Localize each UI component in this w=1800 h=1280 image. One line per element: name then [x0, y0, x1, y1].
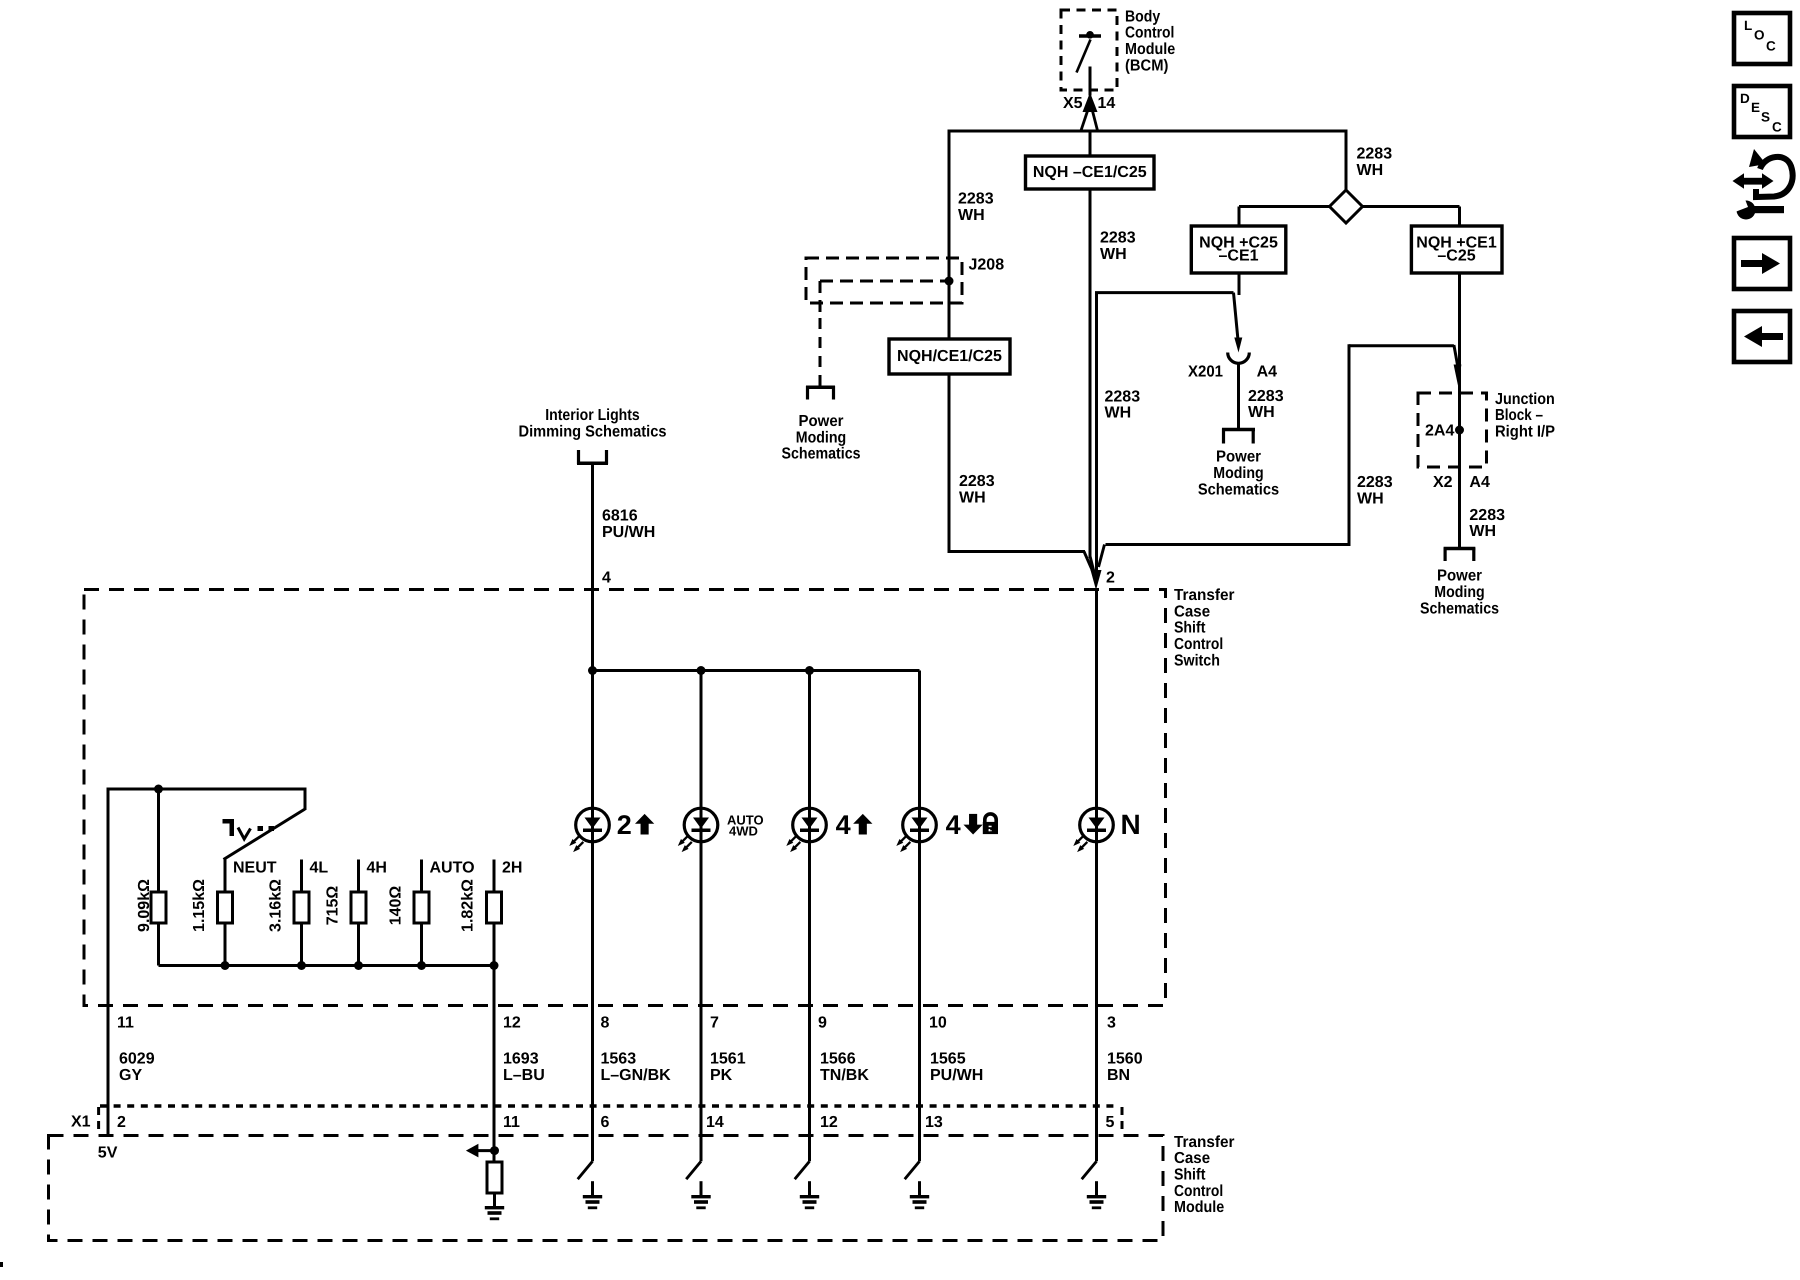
LED indicator 2HI — [576, 808, 610, 842]
resistor 1.82kohm (2H) — [493, 860, 496, 893]
svg-text:S: S — [1761, 109, 1770, 124]
padlock icon — [985, 814, 996, 822]
wire: top bus from BCM pin — [948, 130, 1347, 133]
svg-text:1563: 1563 — [601, 1051, 637, 1068]
svg-text:1566: 1566 — [820, 1051, 856, 1068]
wire: harness segment to module (pin row) — [918, 1006, 921, 1136]
svg-text:13: 13 — [925, 1114, 943, 1131]
svg-text:WH: WH — [1357, 490, 1384, 507]
Body Control Module (BCM) dashed box — [1061, 10, 1117, 90]
LED indicator 4LO lock — [903, 808, 937, 842]
splice J208 outer dashed box — [806, 258, 962, 303]
ground (module pin 5) — [1087, 1195, 1106, 1198]
svg-text:11: 11 — [503, 1114, 520, 1131]
svg-text:Power: Power — [799, 413, 844, 430]
module pin 11: pullup resistor and ground — [493, 1136, 496, 1163]
module pin 13: switch to ground — [918, 1136, 921, 1162]
svg-text:14: 14 — [1098, 95, 1116, 112]
svg-text:Module: Module — [1174, 1199, 1224, 1216]
module pin 5: switch to ground — [1095, 1136, 1098, 1162]
svg-text:4: 4 — [836, 810, 851, 840]
module pin 6: switch to ground — [591, 1136, 594, 1162]
svg-text:4H: 4H — [367, 860, 387, 877]
Junction Block dashed box — [1418, 393, 1487, 467]
svg-text:Right I/P: Right I/P — [1495, 423, 1555, 440]
sidebar icon forward arrow — [1734, 238, 1790, 289]
svg-text:2283: 2283 — [1100, 230, 1136, 247]
resistor bottom bus — [159, 964, 495, 967]
svg-text:WH: WH — [958, 207, 985, 224]
svg-text:X2: X2 — [1433, 474, 1453, 491]
splice diamond — [1330, 190, 1363, 223]
label box NQH +CE1 -C25 — [1411, 226, 1502, 273]
svg-text:(BCM): (BCM) — [1125, 57, 1168, 74]
svg-text:Transfer: Transfer — [1174, 1134, 1235, 1151]
wire: right return branch (horiz-vert-horiz to merge) — [1349, 344, 1454, 347]
wire: harness segment to module (pin row) — [591, 1006, 594, 1136]
ground (module pin 11) — [485, 1206, 504, 1209]
svg-text:Moding: Moding — [796, 429, 846, 446]
svg-text:Control: Control — [1125, 25, 1174, 42]
svg-text:1693: 1693 — [503, 1051, 539, 1068]
svg-text:WH: WH — [1248, 404, 1275, 421]
svg-text:12: 12 — [503, 1015, 521, 1032]
svg-text:4WD: 4WD — [729, 824, 758, 839]
svg-text:O: O — [1754, 27, 1765, 42]
label box NQH/CE1/C25 — [889, 339, 1010, 374]
wire: box down to X201 — [1238, 273, 1241, 295]
BCM pin stub — [1089, 67, 1092, 96]
wire: LED AUTO 4WD branch — [700, 671, 703, 1006]
connector X201 cup — [1228, 353, 1250, 364]
rotary wiper symbol — [223, 819, 234, 824]
svg-text:PK: PK — [710, 1067, 733, 1084]
resistor 3.16kohm (4L) — [300, 860, 303, 893]
svg-text:WH: WH — [1357, 162, 1384, 179]
arrow into BCM pin X5-14 — [1083, 93, 1098, 113]
svg-text:Schematics: Schematics — [1420, 600, 1499, 617]
svg-text:WH: WH — [1100, 246, 1127, 263]
module pin 14: switch to ground — [700, 1136, 703, 1162]
ground (module pin 14) — [691, 1195, 710, 1198]
svg-text:Shift: Shift — [1174, 620, 1206, 637]
svg-text:X1: X1 — [71, 1114, 91, 1131]
svg-text:9: 9 — [818, 1015, 827, 1032]
wire: pair horizontal branch — [1095, 291, 1234, 294]
wire below X201 — [1237, 363, 1240, 428]
svg-text:L–BU: L–BU — [503, 1067, 545, 1084]
svg-text:WH: WH — [1469, 523, 1496, 540]
svg-text:Block –: Block – — [1495, 407, 1543, 424]
merge arrow into switch pin 2 — [1091, 570, 1102, 590]
page corner mark — [0, 1262, 3, 1267]
wire: harness segment to module (pin row) — [808, 1006, 811, 1136]
connector X1 dotted line — [100, 1104, 1120, 1107]
wire: left branch bottom horizontal to merge — [949, 550, 1085, 553]
svg-text:L–GN/BK: L–GN/BK — [601, 1067, 672, 1084]
wire: LED NEUTRAL branch — [1095, 590, 1098, 1006]
off-page bracket (Interior Lights) — [577, 461, 608, 465]
svg-text:1565: 1565 — [930, 1051, 966, 1068]
rotary switch common wire (top) — [108, 788, 305, 791]
svg-text:A4: A4 — [1257, 363, 1278, 380]
wire: LED 2HI branch — [591, 671, 594, 1006]
svg-text:7: 7 — [710, 1015, 719, 1032]
junction dot common/9.09k — [154, 785, 163, 794]
label box NQH +C25 -CE1 — [1191, 226, 1286, 273]
svg-text:Moding: Moding — [1213, 465, 1263, 482]
svg-text:Interior Lights: Interior Lights — [545, 407, 640, 424]
sidebar icon wiring tools — [1730, 149, 1793, 220]
svg-text:Control: Control — [1174, 1183, 1223, 1200]
svg-text:4L: 4L — [310, 860, 329, 877]
svg-text:Schematics: Schematics — [782, 446, 861, 463]
LED indicator AUTO 4WD — [684, 808, 718, 842]
svg-text:1.82kΩ: 1.82kΩ — [459, 879, 476, 932]
svg-text:X201: X201 — [1188, 363, 1223, 380]
svg-text:WH: WH — [959, 490, 986, 507]
svg-text:Switch: Switch — [1174, 652, 1220, 669]
ground (module pin 6) — [583, 1195, 602, 1198]
wire: dimming feed 6816 — [591, 464, 594, 671]
svg-text:8: 8 — [601, 1015, 610, 1032]
svg-text:Junction: Junction — [1495, 391, 1555, 408]
svg-text:2283: 2283 — [1105, 388, 1141, 405]
svg-text:–C25: –C25 — [1437, 248, 1475, 265]
svg-text:WH: WH — [1105, 405, 1132, 422]
wire: common down to pin 11 — [107, 788, 110, 1136]
BCM internal switch blade — [1077, 40, 1091, 73]
off-page bracket (right Power Moding) — [1444, 547, 1476, 551]
off-page connector bracket (Power Moding left) — [806, 386, 835, 390]
resistor 715ohm (4H) — [357, 860, 360, 893]
svg-text:6029: 6029 — [119, 1051, 155, 1068]
svg-text:C: C — [1766, 38, 1776, 53]
svg-text:L: L — [1744, 18, 1752, 33]
junction dots on LED bus — [588, 666, 597, 675]
svg-text:Case: Case — [1174, 1150, 1210, 1167]
sidebar icon DESC — [1734, 86, 1790, 137]
junction dot at J208 — [945, 277, 954, 286]
svg-text:1.15kΩ: 1.15kΩ — [191, 879, 208, 932]
resistor 140ohm (AUTO) — [420, 860, 423, 893]
svg-text:715Ω: 715Ω — [324, 886, 341, 926]
svg-text:PU/WH: PU/WH — [602, 524, 655, 541]
svg-text:9.09kΩ: 9.09kΩ — [136, 879, 153, 932]
splice J208 inner dashed box — [820, 280, 955, 283]
connector X1 side ticks — [97, 1107, 100, 1133]
wire: 2H junction down to pin 12 — [493, 964, 496, 1151]
svg-text:3: 3 — [1107, 1015, 1116, 1032]
svg-text:Transfer: Transfer — [1174, 587, 1235, 604]
svg-text:4: 4 — [946, 810, 961, 840]
svg-text:5V: 5V — [98, 1144, 118, 1161]
svg-text:Moding: Moding — [1434, 584, 1484, 601]
LED indicator 4HI — [793, 808, 827, 842]
svg-text:Case: Case — [1174, 603, 1210, 620]
LED indicator NEUTRAL — [1080, 808, 1114, 842]
svg-text:GY: GY — [119, 1067, 142, 1084]
junction dot 2A4 — [1455, 426, 1464, 435]
rotary switch blade — [304, 788, 307, 811]
svg-text:6: 6 — [601, 1114, 610, 1131]
label box NQH -CE1/C25 — [1026, 156, 1155, 189]
svg-text:1561: 1561 — [710, 1051, 746, 1068]
resistor 9.09kohm (common) — [157, 789, 160, 892]
ground (module pin 13) — [910, 1195, 929, 1198]
svg-text:10: 10 — [929, 1015, 947, 1032]
svg-text:NQH –CE1/C25: NQH –CE1/C25 — [1033, 164, 1147, 181]
svg-text:2H: 2H — [502, 860, 522, 877]
resistor 1.15kohm (NEUT) — [224, 860, 227, 893]
wire: branch pair vertical (from +C25-CE1 path) — [1095, 292, 1098, 571]
svg-text:C: C — [1772, 119, 1782, 134]
wire: LED supply bus — [593, 669, 920, 672]
svg-text:–CE1: –CE1 — [1218, 248, 1258, 265]
svg-text:2283: 2283 — [1357, 474, 1393, 491]
svg-text:Power: Power — [1216, 449, 1261, 466]
svg-text:11: 11 — [117, 1015, 134, 1032]
arrow into connector X201 — [1234, 338, 1242, 353]
svg-text:Module: Module — [1125, 41, 1175, 58]
svg-text:140Ω: 140Ω — [387, 886, 404, 926]
wire: diamond left branch to NQH +C25 -CE1 — [1239, 205, 1330, 208]
svg-text:X5: X5 — [1063, 95, 1083, 112]
wire: harness segment to module (pin row) — [700, 1006, 703, 1136]
dashed wire from J208 to Power Moding — [819, 318, 822, 386]
Transfer Case Shift Control Switch dashed box — [84, 590, 1166, 1006]
svg-text:N: N — [1121, 809, 1141, 840]
wire: right box down through junction block — [1458, 273, 1461, 547]
sidebar icon LOC — [1734, 13, 1790, 64]
Transfer Case Shift Control Module dashed box — [49, 1136, 1164, 1241]
svg-text:14: 14 — [706, 1114, 724, 1131]
svg-text:J208: J208 — [969, 257, 1005, 274]
svg-text:BN: BN — [1107, 1067, 1130, 1084]
svg-text:NEUT: NEUT — [233, 860, 277, 877]
svg-text:2283: 2283 — [1357, 146, 1393, 163]
svg-text:Power: Power — [1437, 568, 1482, 585]
sidebar icon back arrow — [1734, 311, 1790, 362]
svg-text:2283: 2283 — [958, 191, 994, 208]
wire: BCM vertical branch — [1089, 131, 1092, 156]
BCM internal switch contact — [1079, 34, 1101, 38]
svg-text:2283: 2283 — [1248, 388, 1284, 405]
module pin 12: switch to ground — [808, 1136, 811, 1162]
wire: harness segment to module (pin row) — [1095, 1006, 1098, 1136]
svg-text:2: 2 — [117, 1114, 126, 1131]
svg-text:A4: A4 — [1469, 474, 1490, 491]
svg-text:Dimming Schematics: Dimming Schematics — [519, 424, 667, 441]
off-page bracket (X201 Power Moding) — [1222, 428, 1255, 432]
svg-text:3.16kΩ: 3.16kΩ — [267, 879, 284, 932]
svg-text:NQH/CE1/C25: NQH/CE1/C25 — [897, 348, 1002, 365]
wire: bus right corner down to splice diamond — [1345, 130, 1348, 191]
svg-text:D: D — [1740, 91, 1750, 106]
ground (module pin 12) — [800, 1195, 819, 1198]
svg-text:2: 2 — [1106, 570, 1115, 587]
svg-text:4: 4 — [602, 570, 611, 587]
svg-text:TN/BK: TN/BK — [820, 1067, 869, 1084]
svg-text:2283: 2283 — [959, 473, 995, 490]
wire: left branch vertical (circuit 2283) — [948, 130, 951, 554]
svg-text:2283: 2283 — [1469, 507, 1505, 524]
wire: diamond right branch to NQH +CE1 -C25 — [1363, 205, 1460, 208]
svg-text:Body: Body — [1125, 8, 1160, 25]
arrow onto junction block wire — [1454, 365, 1462, 387]
svg-text:Control: Control — [1174, 636, 1223, 653]
wire: LED 4LO lock branch — [918, 671, 921, 1006]
svg-text:1560: 1560 — [1107, 1051, 1143, 1068]
svg-text:E: E — [1751, 100, 1760, 115]
svg-text:12: 12 — [820, 1114, 838, 1131]
svg-text:PU/WH: PU/WH — [930, 1067, 983, 1084]
svg-text:5: 5 — [1106, 1114, 1115, 1131]
svg-text:AUTO: AUTO — [430, 860, 475, 877]
svg-text:2: 2 — [617, 810, 632, 840]
svg-text:Schematics: Schematics — [1198, 481, 1279, 498]
svg-text:Shift: Shift — [1174, 1166, 1206, 1183]
svg-text:2A4: 2A4 — [1425, 422, 1454, 439]
svg-text:6816: 6816 — [602, 508, 638, 525]
wire: LED 4HI branch — [808, 671, 811, 1006]
